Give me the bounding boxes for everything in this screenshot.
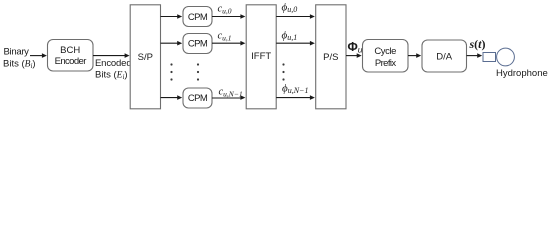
svg-text:S/P: S/P xyxy=(138,52,153,63)
dots CPM column xyxy=(197,63,199,80)
dots phi column xyxy=(282,63,284,80)
svg-text:Cycle: Cycle xyxy=(374,46,396,57)
svg-text:CPM: CPM xyxy=(188,93,208,104)
label Encoded Bits (Ei) xyxy=(95,58,131,81)
wire CPM1 to IFFT xyxy=(212,14,245,19)
svg-text:Encoder: Encoder xyxy=(55,56,87,67)
Cycle Prefix box xyxy=(363,40,409,73)
svg-text:IFFT: IFFT xyxy=(251,51,271,62)
wire S/P to CPM 1 xyxy=(161,14,183,19)
CPM box 3 xyxy=(183,88,212,108)
svg-text:Encoded: Encoded xyxy=(95,58,131,69)
svg-text:Hydrophone: Hydrophone xyxy=(496,68,548,79)
svg-text:P/S: P/S xyxy=(323,52,338,63)
svg-text:CPM: CPM xyxy=(188,39,208,50)
svg-text:BCH: BCH xyxy=(60,45,80,56)
svg-text:Binary: Binary xyxy=(4,47,30,58)
hydrophone transducer square xyxy=(483,53,496,62)
wire IFFT to P/S row 2 xyxy=(276,41,315,46)
wire BCH to S/P xyxy=(93,53,130,58)
D/A box xyxy=(422,40,467,72)
wire CPM2 to IFFT xyxy=(212,41,245,46)
P/S box xyxy=(316,5,346,109)
BCH Encoder box xyxy=(48,40,94,72)
svg-text:s(t): s(t) xyxy=(469,37,486,51)
label Binary Bits (Bi) xyxy=(3,47,36,70)
wire CPM3 to IFFT xyxy=(212,95,245,100)
CPM box 1 xyxy=(183,7,212,27)
wire S/P to CPM 3 xyxy=(161,95,183,100)
wire IFFT to P/S row 3 xyxy=(276,95,315,100)
wire P/S to Cycle Prefix xyxy=(346,53,362,58)
svg-text:Prefix: Prefix xyxy=(375,58,397,69)
wire D/A to Hydrophone xyxy=(467,53,483,58)
dots between S/P and CPM xyxy=(170,63,172,80)
svg-text:CPM: CPM xyxy=(188,12,208,23)
wire IFFT to P/S row 1 xyxy=(276,14,315,19)
svg-text:D/A: D/A xyxy=(436,52,453,63)
hydrophone circle xyxy=(497,48,515,66)
wire Cycle Prefix to D/A xyxy=(408,53,421,58)
CPM box 2 xyxy=(183,34,212,54)
S/P box xyxy=(130,5,160,109)
wire S/P to CPM 2 xyxy=(161,41,183,46)
IFFT box xyxy=(246,5,276,109)
wire Binary to BCH xyxy=(30,53,47,58)
